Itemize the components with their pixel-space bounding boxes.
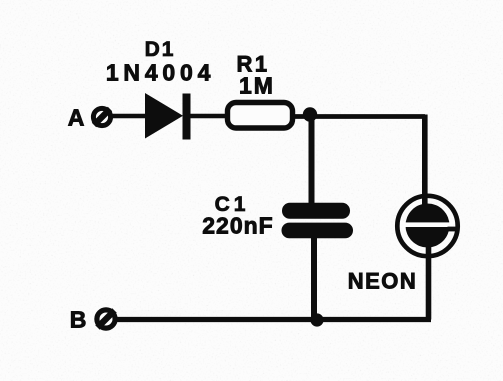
svg-text:1M: 1M bbox=[239, 73, 275, 99]
neon lamp bbox=[397, 196, 458, 256]
wire right column top (corner to neon) bbox=[422, 115, 428, 206]
node dot on bottom rail bbox=[310, 313, 323, 326]
svg-text:B: B bbox=[70, 307, 87, 333]
wire resistor to right corner (top rail) bbox=[293, 114, 425, 119]
wire A to diode bbox=[110, 114, 148, 119]
capacitor C1 bbox=[282, 203, 354, 239]
svg-text:D1: D1 bbox=[145, 38, 176, 61]
terminal B bbox=[97, 310, 115, 328]
svg-text:A: A bbox=[68, 105, 85, 131]
svg-text:220nF: 220nF bbox=[202, 213, 273, 239]
svg-text:1N4004: 1N4004 bbox=[106, 60, 215, 86]
wire right column bottom (neon to bottom rail) bbox=[426, 246, 432, 320]
node dot at resistor output bbox=[303, 107, 317, 121]
wire capacitor C1 bottom to bottom rail bbox=[311, 234, 317, 320]
svg-text:NEON: NEON bbox=[348, 269, 418, 294]
wire node to capacitor C1 top bbox=[309, 113, 315, 206]
diode D1 bbox=[145, 93, 191, 140]
wire bottom rail B to right column bbox=[114, 317, 431, 322]
wire diode to resistor R1 bbox=[188, 114, 228, 119]
resistor R1 bbox=[228, 103, 293, 129]
terminal A bbox=[93, 108, 110, 125]
